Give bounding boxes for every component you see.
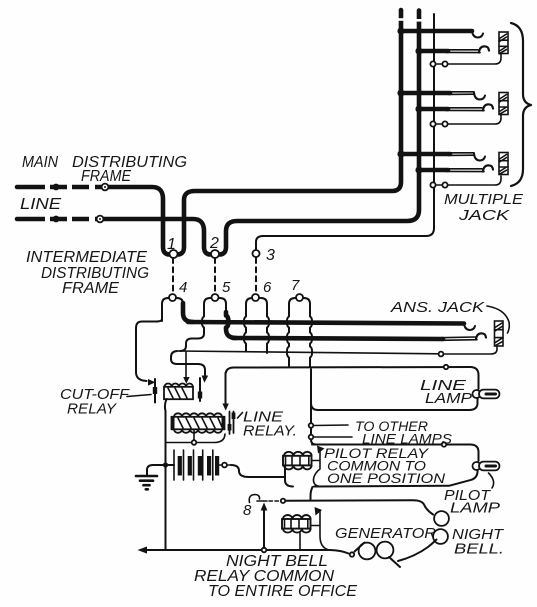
svg-text:7: 7 <box>291 277 300 294</box>
svg-text:LAMP: LAMP <box>450 500 500 517</box>
battery cells <box>174 450 219 480</box>
cut-off relay right contact spring <box>198 378 202 401</box>
line lamp symbol <box>473 390 500 399</box>
cut-off relay left contact spring <box>153 379 157 403</box>
jack J3 tip spring with hook <box>397 150 485 160</box>
svg-text:LINE: LINE <box>20 196 61 213</box>
wire: cut-off coil to left vertical <box>165 399 167 549</box>
node: terminal circle 3 <box>253 250 260 257</box>
label: MAIN DISTRIBUTING FRAME <box>22 154 187 185</box>
wire: ring bus vertical (multiple jack) with MDF loop 2 conductor <box>17 11 423 255</box>
line relay coil <box>172 413 225 432</box>
pointer: cut-off relay label line <box>127 395 151 397</box>
wire: night bell coil ground leg <box>299 533 301 550</box>
svg-text:JACK: JACK <box>458 207 511 224</box>
label: LINE RELAY <box>243 409 297 440</box>
jack J2 tip spring with hook <box>397 89 485 99</box>
wire: dashed jumper 2 to 5 <box>214 258 216 293</box>
node: terminal circle 4 <box>162 294 193 322</box>
label: MULTIPLE JACK <box>444 191 524 224</box>
node: terminal circle 5 <box>202 294 236 338</box>
wire: row 2 ring to answering jack spring with hook <box>233 333 486 340</box>
svg-text:8: 8 <box>243 502 252 519</box>
svg-text:ANS. JACK: ANS. JACK <box>390 299 485 316</box>
pilot relay coil <box>283 452 312 470</box>
wire: branch to cut-off coil top with arrow <box>183 352 189 384</box>
label: NIGHT BELL <box>452 526 505 558</box>
wire: tip bus vertical (multiple jack) with MDF loop 1 conductor <box>17 10 405 255</box>
svg-text:MAIN: MAIN <box>22 154 58 171</box>
wire: common return rail at bottom <box>138 547 331 554</box>
wire: battery left to ground <box>147 462 174 475</box>
generator symbol with switch contacts <box>330 540 437 568</box>
label: LINE LAMP <box>420 377 472 407</box>
jack J2 sleeve body (hatched) <box>499 93 508 115</box>
svg-text:ONE POSITION: ONE POSITION <box>327 470 446 486</box>
svg-text:5: 5 <box>222 279 231 296</box>
jack J3 sleeve wire and taps <box>430 176 501 188</box>
wire: night bell armature <box>311 507 329 550</box>
wire: row 1 tip to answering jack spring with hook <box>188 322 475 330</box>
jack J1 sleeve body (hatched) <box>499 32 508 54</box>
wire: row 3 sleeve to answering jack body <box>177 347 497 357</box>
label: TO OTHER LINE LAMPS <box>355 418 453 447</box>
node: junction on lamp wire <box>444 365 448 369</box>
jack J1 tip spring with hook <box>397 27 483 37</box>
night bell relay coil <box>282 515 311 533</box>
svg-text:3: 3 <box>266 247 275 264</box>
jack J2 ring spring with hook <box>415 104 493 112</box>
night bell gongs <box>433 511 449 544</box>
pointer arc to answering jack <box>487 306 509 333</box>
ground symbol <box>136 476 157 489</box>
night alarm key 8 <box>249 495 285 503</box>
svg-text:TO ENTIRE OFFICE: TO ENTIRE OFFICE <box>208 583 357 600</box>
wire: battery feed to pilot relay and spine down <box>231 465 293 487</box>
label: PILOT RELAY COMMON TO ONE POSITION <box>324 445 446 486</box>
wire: line lamp return loop <box>311 369 478 410</box>
answering jack sleeve body (hatched) <box>495 321 504 346</box>
svg-text:MULTIPLE: MULTIPLE <box>444 191 524 208</box>
label: PILOT LAMP <box>444 487 500 517</box>
wire: spine pilot to night bell area <box>311 487 313 500</box>
jack J3 sleeve body (hatched) <box>499 153 508 175</box>
jack J1 sleeve wire and taps <box>430 54 501 67</box>
wire: night bell circuit top <box>286 500 434 514</box>
svg-text:RELAY.: RELAY. <box>243 423 297 440</box>
node: terminal circle 2 <box>211 250 219 258</box>
label: CUT-OFF RELAY <box>60 386 130 418</box>
wire: row 4 lamp circuit from terminal 7 to line lamp <box>226 367 479 389</box>
wire: staircase from loop 5 via row 3 to cut-off right contact <box>171 331 208 383</box>
jack J1 ring spring with hook <box>415 46 489 54</box>
svg-text:1: 1 <box>167 236 176 253</box>
wire: pilot relay armature and connection <box>312 446 325 487</box>
pointer: pilot lamp curve <box>489 473 494 488</box>
wire: dashed jumper 1 to 4 <box>172 258 174 293</box>
wire: night alarm key riser with arrow <box>261 503 268 549</box>
wire: arrow drop to line relay contacts <box>222 373 228 411</box>
pointer: line relay label line <box>238 413 243 419</box>
label: INTERMEDIATE DISTRIBUTING FRAME <box>26 249 149 297</box>
svg-text:GENERATOR: GENERATOR <box>335 525 436 542</box>
wire: MDF line 2 dashes and splice circles <box>45 215 103 223</box>
wire: MDF line 1 dashes and splice circles <box>45 183 108 191</box>
node: terminal circle 1 <box>170 250 178 258</box>
svg-text:INTERMEDIATE: INTERMEDIATE <box>26 249 147 266</box>
jack J3 ring spring with hook <box>415 165 493 173</box>
pilot lamp symbol <box>473 462 500 471</box>
line relay contact springs <box>228 412 236 435</box>
svg-text:2: 2 <box>209 235 219 252</box>
node: terminal circle 6 <box>244 294 269 353</box>
wire: pilot lamp bottom return <box>314 470 478 487</box>
svg-text:BELL.: BELL. <box>454 541 504 558</box>
cut-off relay coil <box>164 383 193 399</box>
wire: spine from lamp loop to pilot box with taps <box>309 402 352 445</box>
svg-text:FRAME: FRAME <box>81 168 131 185</box>
label: NIGHT BELL RELAY COMMON TO ENTIRE OFFICE <box>194 553 357 600</box>
wire: under line relay connector <box>166 430 226 445</box>
wire: dashed jumper 3 to 6 <box>255 258 257 293</box>
svg-text:RELAY: RELAY <box>67 401 117 418</box>
svg-text:6: 6 <box>263 279 272 296</box>
wire: sleeve bus vertical (thin) to node 3 riser <box>256 14 434 250</box>
svg-text:LAMP: LAMP <box>425 390 472 407</box>
svg-text:FRAME: FRAME <box>62 280 119 297</box>
node: junction on pilot top wire <box>442 442 446 446</box>
brace: multiple jack grouping <box>511 23 531 186</box>
wire: battery right connection node <box>217 463 231 468</box>
node: terminal circle 7 <box>287 294 312 367</box>
jack J2 sleeve wire and taps <box>430 115 501 127</box>
wire: staircase from loop 4 to cut-off relay left contact <box>136 319 162 386</box>
svg-text:4: 4 <box>179 279 187 296</box>
wire: pilot lamp circuit top <box>312 445 479 462</box>
